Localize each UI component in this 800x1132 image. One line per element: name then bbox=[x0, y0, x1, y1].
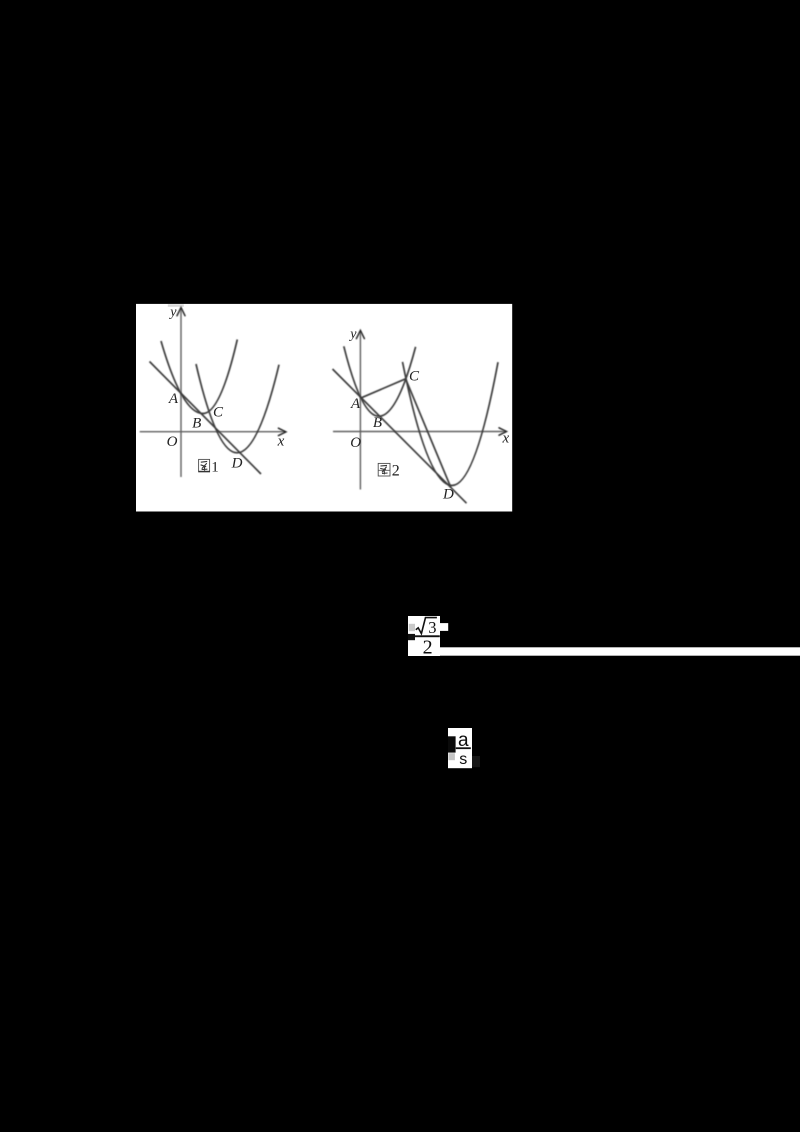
svg-text:D: D bbox=[231, 456, 243, 472]
svg-text:B: B bbox=[192, 416, 201, 432]
svg-text:1: 1 bbox=[211, 459, 219, 475]
svg-text:B: B bbox=[373, 415, 382, 431]
svg-text:C: C bbox=[213, 405, 224, 421]
svg-text:C: C bbox=[409, 368, 420, 384]
svg-text:x: x bbox=[277, 433, 285, 449]
svg-text:3: 3 bbox=[428, 618, 436, 637]
svg-text:D: D bbox=[442, 487, 454, 503]
svg-text:A: A bbox=[168, 391, 179, 407]
svg-text:2: 2 bbox=[392, 462, 400, 479]
svg-text:x: x bbox=[501, 431, 509, 447]
svg-text:O: O bbox=[167, 434, 178, 450]
svg-text:A: A bbox=[350, 396, 361, 412]
svg-text:O: O bbox=[350, 435, 361, 451]
svg-text:y: y bbox=[168, 305, 177, 320]
svg-text:y: y bbox=[348, 327, 357, 342]
svg-text:a: a bbox=[458, 730, 469, 751]
svg-text:s: s bbox=[459, 751, 467, 768]
svg-text:2: 2 bbox=[423, 637, 433, 659]
